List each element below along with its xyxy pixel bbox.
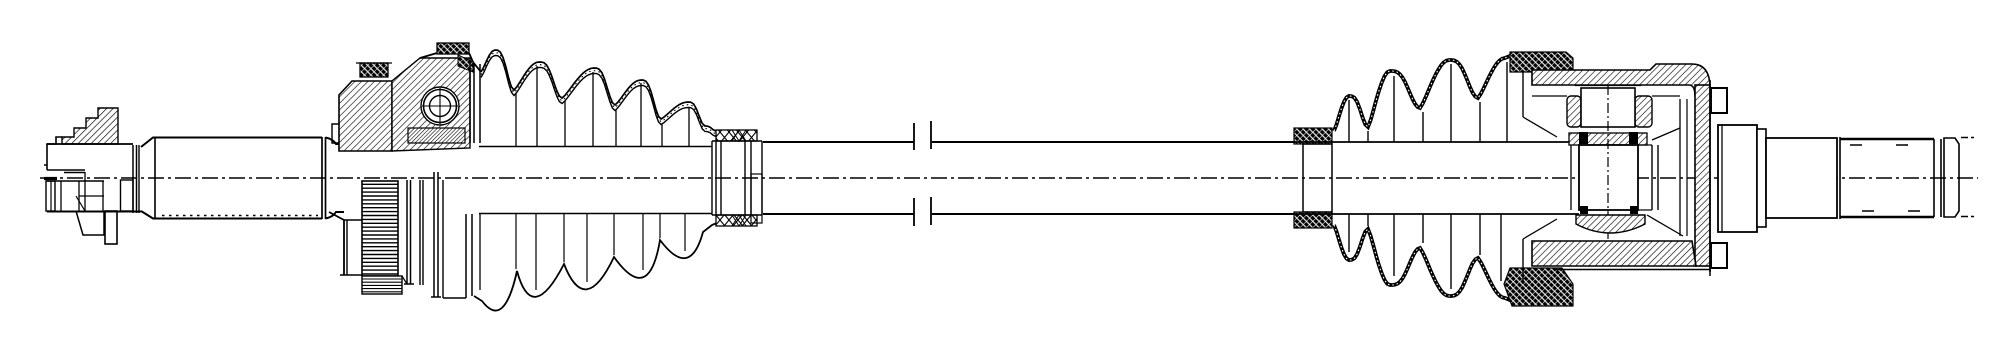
outer joint boot clamps (large end): [1504, 52, 1573, 306]
right CV boot (bellows): [1294, 55, 1579, 301]
left inner stub shaft (splined end, flange, rings): [44, 108, 141, 244]
right output stub shaft with splines: [1718, 125, 1974, 232]
outer CV joint housing (cup with rollers, cage, race): [1523, 64, 1727, 284]
left CV boot (bellows): [474, 50, 719, 311]
centerline (dash-dot) main axis: [40, 177, 1978, 179]
left boot small-end clamp and collar: [712, 130, 762, 226]
long middle shaft with break symbol: [763, 121, 1294, 226]
inner CV joint housing with bearing and ABS tone ring: [329, 43, 481, 298]
shaft cylinder (inner): [141, 137, 344, 219]
right boot small-end clamp: [1294, 128, 1332, 228]
